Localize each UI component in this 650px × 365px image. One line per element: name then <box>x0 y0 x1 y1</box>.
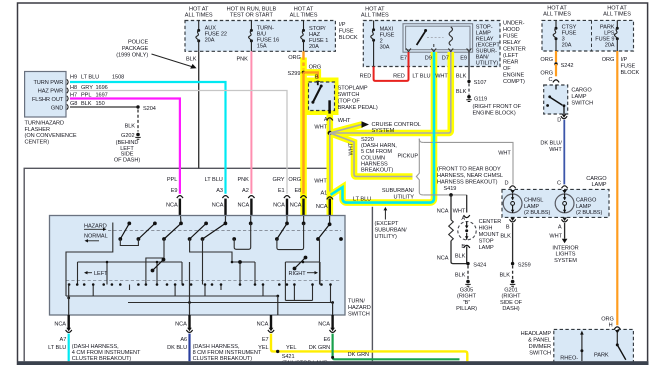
svg-text:RHEO-: RHEO- <box>560 355 578 361</box>
svg-text:LAMP: LAMP <box>571 94 586 100</box>
svg-text:FUSE: FUSE <box>339 29 354 35</box>
svg-text:LIGHTS: LIGHTS <box>556 252 576 258</box>
svg-text:NCA: NCA <box>316 204 328 210</box>
svg-text:(TOP OF: (TOP OF <box>338 99 361 105</box>
svg-text:E9: E9 <box>171 188 178 194</box>
svg-text:A3: A3 <box>216 188 223 194</box>
svg-text:WHT: WHT <box>453 209 466 215</box>
note POLICE PACKAGE (1999 ONLY) with leader arrow <box>116 40 196 69</box>
svg-text:30A: 30A <box>380 45 390 51</box>
switch assembly TURN/HAZARD SWITCH box <box>50 216 346 316</box>
svg-text:PNK: PNK <box>237 177 249 183</box>
label HEADLAMP & PANEL DIMMER SWITCH <box>521 331 552 357</box>
svg-text:RED: RED <box>360 74 372 80</box>
svg-text:20A: 20A <box>562 43 572 49</box>
svg-text:(DASH HARNESS,: (DASH HARNESS, <box>72 344 119 350</box>
header HOT AT ALL TIMES (maxi fuse) <box>361 7 389 19</box>
svg-text:BLK: BLK <box>500 234 511 240</box>
I/P fuse block (right dashed box) <box>542 20 634 51</box>
svg-text:LAMP: LAMP <box>591 182 606 188</box>
svg-text:ENGINE BLOCK): ENGINE BLOCK) <box>473 110 516 116</box>
svg-text:BLK: BLK <box>456 74 467 80</box>
svg-text:20A: 20A <box>605 43 615 49</box>
svg-text:“B”: “B” <box>463 300 470 306</box>
svg-text:I/P: I/P <box>339 22 346 28</box>
svg-text:S204: S204 <box>143 106 156 112</box>
label LEFT with arrow <box>84 271 108 277</box>
svg-text:B: B <box>506 225 510 231</box>
svg-text:ALL TIMES: ALL TIMES <box>361 13 389 19</box>
svg-text:E8: E8 <box>294 188 301 194</box>
svg-text:CENTER: CENTER <box>503 47 526 53</box>
svg-text:4 CM FROM INSTRUMENT: 4 CM FROM INSTRUMENT <box>72 350 141 356</box>
svg-text:RELAY: RELAY <box>503 40 521 46</box>
svg-text:LT BLU: LT BLU <box>81 75 99 81</box>
svg-text:E7: E7 <box>400 56 407 62</box>
svg-text:PNK: PNK <box>237 57 249 63</box>
svg-text:E6: E6 <box>323 337 330 343</box>
svg-text:NCA: NCA <box>212 202 224 208</box>
wire BLK lamp pin B to S424 <box>455 244 470 264</box>
svg-text:8 CM FROM INSTRUMENT: 8 CM FROM INSTRUMENT <box>193 350 262 356</box>
svg-text:SWITCH: SWITCH <box>571 101 593 107</box>
wire BLK from AUX fuse to ground bus <box>186 51 199 168</box>
wire LT BLU relay pin D9 to A1 (suburban/utility) <box>331 52 434 203</box>
svg-text:H: H <box>609 322 613 328</box>
wire WHT brace/squiggle to S419 and to CHMSL lamp feed <box>416 139 513 195</box>
svg-text:20A: 20A <box>309 44 319 50</box>
svg-text:WHT: WHT <box>348 142 354 155</box>
wire U-link A3 throw to PNK pivot <box>234 223 251 249</box>
label CARGO LAMP (title) <box>586 176 607 188</box>
svg-text:H9: H9 <box>70 75 77 81</box>
svg-text:STOPLAMP: STOPLAMP <box>338 86 368 92</box>
svg-text:(ON CONVENIENCE: (ON CONVENIENCE <box>25 133 77 139</box>
ground bus right edge <box>371 207 373 361</box>
svg-text:SYSTEM: SYSTEM <box>554 258 577 264</box>
svg-text:BLK: BLK <box>455 254 466 260</box>
svg-text:PILLAR): PILLAR) <box>456 306 477 312</box>
svg-text:D: D <box>505 180 509 186</box>
pin A3 entry (LT BLU NCA) <box>205 177 229 219</box>
wire ORG park lps fuse to dimmer switch pin H <box>601 51 620 329</box>
lamp assembly box CHMSL LAMP / CARGO LAMP <box>502 189 609 217</box>
svg-text:BLK: BLK <box>186 57 197 63</box>
svg-text:CARGO: CARGO <box>586 176 607 182</box>
underhood fuse-relay center (dashed box) <box>363 21 500 67</box>
svg-text:RED: RED <box>393 74 405 80</box>
node S220 (DASH HARN, 5 CM FROM COLUMN HARNESS BREAKOUT) <box>361 137 397 174</box>
svg-text:COMPT): COMPT) <box>503 79 525 85</box>
note (DASH HARNESS, 8 CM FROM INSTRUMENT CLUSTER BREAKOUT) <box>193 344 262 362</box>
contact dots lower rows <box>67 261 334 304</box>
note (DASH HARNESS, 4 CM FROM INSTRUMENT CLUSTER BREAKOUT) <box>72 344 141 362</box>
svg-text:15A: 15A <box>257 44 267 50</box>
label RIGHT with arrow <box>289 271 319 277</box>
svg-text:FLASHER: FLASHER <box>25 127 50 133</box>
svg-text:C: C <box>557 180 561 186</box>
svg-text:NCA: NCA <box>290 202 302 208</box>
svg-text:RIGHT: RIGHT <box>289 271 307 277</box>
svg-text:DASH): DASH) <box>502 306 519 312</box>
svg-text:FUSE: FUSE <box>621 64 636 70</box>
label (FRONT TO REAR BODY HARNESS, NEAR CHMSL HARNESS BREAKOUT) <box>437 167 503 193</box>
ground G202 (BEHIND LEFT SIDE OF DASH) <box>114 133 141 164</box>
label TURN/HAZARD SWITCH <box>348 299 371 318</box>
svg-text:1508: 1508 <box>112 75 124 81</box>
switch assembly HEADLAMP & PANEL DIMMER SWITCH <box>554 329 634 362</box>
wire YEL E7 to S421 and down to bus <box>258 334 467 362</box>
pin A of stoplamp switch <box>324 117 351 124</box>
pin D9 label <box>425 56 432 62</box>
svg-text:BLK: BLK <box>125 124 136 130</box>
svg-text:LT BLU: LT BLU <box>48 345 66 351</box>
label I/P FUSE BLOCK (right) <box>621 57 640 76</box>
svg-text:BLK: BLK <box>455 273 466 279</box>
svg-text:G119: G119 <box>474 96 487 102</box>
pin D7 label <box>442 56 449 62</box>
pin A / wire WHT lamp assembly to interior lights system <box>549 218 578 264</box>
switch SW1 STOPLAMP SWITCH (TOP OF BRAKE PEDAL) <box>309 82 335 114</box>
wire WHT S419 to center high mount stop lamp <box>453 195 470 222</box>
svg-text:NCA: NCA <box>238 202 250 208</box>
label CENTER HIGH MOUNT STOP LAMP <box>479 219 502 251</box>
fuse STOP/HAZ FUSE 1 20A <box>301 21 329 52</box>
label STOPLAMP SWITCH (TOP OF BRAKE PEDAL) <box>338 86 378 112</box>
svg-text:NCA: NCA <box>175 322 187 328</box>
node S421 (TAIL/STOP LAMP) <box>276 350 328 365</box>
lower row dashed line <box>66 280 341 282</box>
wire WHT to cruise control system <box>330 121 421 134</box>
svg-text:D9: D9 <box>425 56 432 62</box>
svg-text:GRY: GRY <box>273 177 285 183</box>
header HOT AT ALL TIMES (stop/haz fuse) <box>290 7 318 19</box>
svg-text:ORG: ORG <box>288 55 301 61</box>
ground G119 (RIGHT FRONT OF ENGINE BLOCK) <box>466 95 521 116</box>
wire DK BLU A6 to cluster <box>167 334 189 362</box>
svg-text:SWITCH: SWITCH <box>338 92 360 98</box>
wire thin S419 horizontal run <box>423 194 467 196</box>
svg-text:S421: S421 <box>282 354 295 360</box>
svg-text:POLICE: POLICE <box>128 40 149 46</box>
svg-text:S259: S259 <box>518 262 531 268</box>
pin G8 / wire BLK 150 flasher to S204 <box>70 101 138 107</box>
wire WHT junction to relay pin D7 <box>330 52 451 133</box>
svg-text:MOUNT: MOUNT <box>479 232 500 238</box>
svg-text:A7: A7 <box>60 337 67 343</box>
svg-text:ALL TIMES: ALL TIMES <box>290 13 318 19</box>
internal wiring web of turn/hazard switch <box>66 223 333 303</box>
header HOT AT ALL TIMES (ctsy fuse) <box>543 6 571 18</box>
pin H7 / wire PPL 1697 flasher to E9 <box>70 93 180 194</box>
svg-text:DK BLU/: DK BLU/ <box>540 141 562 147</box>
svg-text:NCA: NCA <box>166 202 178 208</box>
svg-text:NCA: NCA <box>437 256 449 262</box>
label SUBURBAN/UTILITY <box>382 188 415 200</box>
fuse MAXI FUSE 2 30A <box>371 21 395 67</box>
label I/P FUSE BLOCK <box>339 22 358 41</box>
svg-text:HARNESS BREAKOUT): HARNESS BREAKOUT) <box>437 180 498 186</box>
node S419 <box>449 193 453 197</box>
note (EXCEPT SUBURBAN/UTILITY) with up arrow <box>375 207 408 240</box>
svg-text:(RIGHT FRONT OF: (RIGHT FRONT OF <box>473 104 522 110</box>
pin E8 entry (ORG NCA) <box>288 177 306 219</box>
svg-text:HARNESS: HARNESS <box>361 161 388 167</box>
svg-text:(RIGHT: (RIGHT <box>502 294 522 300</box>
pin C of lamp assembly <box>557 180 568 193</box>
svg-text:E7: E7 <box>262 337 269 343</box>
label HAZARD / NORMAL mode arrows <box>84 223 108 242</box>
svg-text:CENTER: CENTER <box>479 219 502 225</box>
pin H8 / wire GRY 1696 flasher to E1 <box>70 85 287 194</box>
label TURN/HAZARD FLASHER (ON CONVENIENCE CENTER) <box>25 121 77 146</box>
svg-text:PPL: PPL <box>167 177 177 183</box>
svg-text:NCA: NCA <box>318 322 330 328</box>
lamp CENTER HIGH MOUNT STOP LAMP <box>458 222 476 240</box>
svg-text:INTERIOR: INTERIOR <box>552 245 578 251</box>
header HOT AT ALL TIMES (aux fuse) <box>185 7 213 19</box>
wire LT BLU A7 to cluster <box>48 334 69 362</box>
entry stubs to hazard row pivots <box>181 216 330 224</box>
switch SW2 CARGO LAMP SWITCH <box>544 85 568 114</box>
svg-text:BLOCK: BLOCK <box>339 35 358 41</box>
svg-text:SUBURBAN/: SUBURBAN/ <box>382 188 415 194</box>
svg-text:ENGINE: ENGINE <box>503 73 524 79</box>
svg-text:NCA: NCA <box>437 209 449 215</box>
svg-text:ORG: ORG <box>309 64 322 70</box>
svg-text:G8: G8 <box>70 101 77 107</box>
wire BLK dashed S424 to G305 <box>455 266 468 280</box>
node S107 <box>467 80 486 86</box>
svg-text:DK GRN: DK GRN <box>309 345 330 351</box>
svg-text:STOP: STOP <box>479 239 494 245</box>
svg-text:SWITCH: SWITCH <box>529 350 551 356</box>
svg-text:UTILITY): UTILITY) <box>375 234 397 240</box>
svg-text:BLK: BLK <box>81 101 92 107</box>
svg-text:REAR: REAR <box>503 60 518 66</box>
fuse PARK LPS FUSE 9 20A <box>595 20 619 51</box>
svg-text:BLOCK: BLOCK <box>621 70 640 76</box>
header HOT IN RUN, BULB TEST OR START <box>227 7 277 19</box>
svg-text:GND: GND <box>51 105 63 111</box>
svg-text:HOOD: HOOD <box>503 27 520 33</box>
pin D of lamp assembly <box>505 180 516 193</box>
svg-text:CHMSL: CHMSL <box>524 198 543 204</box>
svg-text:D: D <box>557 118 561 124</box>
svg-text:(EXCEPT: (EXCEPT <box>375 221 400 227</box>
svg-text:D7: D7 <box>442 56 449 62</box>
svg-text:20A: 20A <box>205 38 215 44</box>
ground bus outline (left/top of turn-hazard assembly) <box>24 168 330 361</box>
svg-text:(DASH HARN,: (DASH HARN, <box>361 143 397 149</box>
svg-text:ORG: ORG <box>540 57 553 63</box>
pin E6 exit (NCA) <box>318 315 335 343</box>
wire PNK from TURN-B/U fuse to A2 <box>237 51 252 194</box>
label STOP-LAMP RELAY (EXCEPT SUBURBAN/UTILITY) <box>476 25 501 67</box>
svg-text:S242: S242 <box>561 63 574 69</box>
hazard row dashed line <box>108 230 341 232</box>
svg-text:LAMP: LAMP <box>524 204 539 210</box>
hazard switch contacts row (levers and poles) <box>119 222 342 240</box>
svg-text:SWITCH: SWITCH <box>348 312 370 318</box>
svg-text:(FRONT TO REAR BODY: (FRONT TO REAR BODY <box>437 167 501 173</box>
svg-text:G201: G201 <box>504 288 517 294</box>
flasher module TURN/HAZARD FLASHER <box>25 72 69 118</box>
wire U-link GRY throw to ORG pivot <box>277 223 304 249</box>
pin E7 exit (NCA) <box>257 315 274 343</box>
pin E9 entry (PPL NCA) <box>166 177 183 219</box>
svg-text:WHT: WHT <box>314 124 327 130</box>
svg-text:TURN PWR: TURN PWR <box>33 80 63 86</box>
svg-text:COLUMN: COLUMN <box>361 155 385 161</box>
svg-text:OF: OF <box>503 66 511 72</box>
svg-text:WHT: WHT <box>338 118 351 124</box>
svg-text:BLK: BLK <box>499 273 510 279</box>
svg-text:NCA: NCA <box>273 202 285 208</box>
svg-text:(2 BULBS): (2 BULBS) <box>576 210 602 216</box>
svg-text:WHT: WHT <box>314 179 327 185</box>
svg-text:DK BLU: DK BLU <box>167 345 187 351</box>
svg-text:HEADLAMP: HEADLAMP <box>521 331 552 337</box>
svg-text:YEL: YEL <box>286 345 296 351</box>
svg-text:(LEFT: (LEFT <box>503 53 519 59</box>
svg-text:PARK: PARK <box>594 352 609 358</box>
svg-text:(2 BULBS): (2 BULBS) <box>524 210 550 216</box>
svg-text:SUBURBAN/: SUBURBAN/ <box>375 228 408 234</box>
node S204 <box>136 105 156 112</box>
svg-text:G305: G305 <box>460 288 473 294</box>
wire ORG S299 to stoplamp switch pin B <box>304 72 321 83</box>
svg-text:150: 150 <box>96 101 105 107</box>
svg-text:5 CM FROM: 5 CM FROM <box>361 149 392 155</box>
node S242 <box>554 62 573 69</box>
label CARGO LAMP SWITCH <box>571 88 593 107</box>
pin E7 label <box>400 56 407 62</box>
label PICKUP <box>398 154 419 160</box>
node S259 <box>511 262 531 268</box>
svg-text:CARGO: CARGO <box>571 88 592 94</box>
svg-text:CENTER): CENTER) <box>25 139 50 145</box>
fuse TURN-B/U FUSE 16 15A <box>249 21 280 52</box>
svg-text:(RIGHT: (RIGHT <box>457 294 477 300</box>
svg-text:C: C <box>549 77 553 83</box>
svg-text:PACKAGE: PACKAGE <box>122 46 149 52</box>
ground G305 (RIGHT B PILLAR) <box>456 280 477 312</box>
svg-text:CARGO: CARGO <box>576 198 597 204</box>
svg-text:NCA: NCA <box>257 322 269 328</box>
svg-text:E1: E1 <box>278 188 285 194</box>
svg-text:FUSE: FUSE <box>503 34 518 40</box>
mid-row switch levers <box>151 256 307 272</box>
svg-text:G202: G202 <box>121 133 134 139</box>
svg-text:A: A <box>558 225 562 231</box>
wire ORG S242 to cargo lamp switch pin C <box>540 64 559 83</box>
svg-text:I/P: I/P <box>621 57 628 63</box>
svg-text:FLSHR OUT: FLSHR OUT <box>32 97 64 103</box>
node S299 <box>288 71 306 77</box>
svg-text:ALL TIMES: ALL TIMES <box>603 12 631 18</box>
pin H9 / wire LT BLU 1508 flasher to A3 <box>70 75 226 194</box>
svg-text:YEL: YEL <box>258 345 268 351</box>
svg-text:S220: S220 <box>361 137 374 143</box>
svg-text:S419: S419 <box>444 186 457 192</box>
svg-text:LAMP: LAMP <box>479 245 494 251</box>
svg-text:WHT: WHT <box>498 151 511 157</box>
svg-text:& PANEL: & PANEL <box>528 337 551 343</box>
node S424 <box>466 262 486 268</box>
svg-text:ORG: ORG <box>602 57 615 63</box>
wire BLK from relay pin E9 to S107 <box>456 52 469 80</box>
label UNDERHOOD FUSE RELAY CENTER (LEFT REAR OF ENGINE COMPT) <box>503 21 526 86</box>
svg-text:(DASH HARNESS,: (DASH HARNESS, <box>193 344 240 350</box>
svg-text:A: A <box>324 117 328 123</box>
svg-text:HIGH: HIGH <box>479 226 493 232</box>
svg-text:PICKUP: PICKUP <box>398 154 419 160</box>
wire WHT stoplamp switch to junction <box>314 119 329 133</box>
pin A7 exit (NCA) <box>54 315 71 343</box>
svg-text:ORG: ORG <box>288 177 301 183</box>
svg-text:SIDE OF: SIDE OF <box>500 300 523 306</box>
wire BLK dashed S259 to G201 <box>499 266 512 280</box>
svg-text:LT BLU: LT BLU <box>205 177 223 183</box>
wire BLK dashed S107 to G119 <box>456 83 469 95</box>
exit wires inside box to bottom edge <box>69 262 333 315</box>
fuse AUX FUSE 22 20A <box>196 21 227 52</box>
svg-text:BRAKE PEDAL): BRAKE PEDAL) <box>338 105 378 111</box>
svg-text:CRUISE CONTROL: CRUISE CONTROL <box>372 122 421 128</box>
svg-text:TEST OR START: TEST OR START <box>230 13 273 19</box>
svg-text:HARNESS, NEAR CHMSL: HARNESS, NEAR CHMSL <box>437 173 503 179</box>
svg-text:TURN/HAZARD: TURN/HAZARD <box>25 121 65 127</box>
node junction at stoplamp output <box>328 131 332 135</box>
wire DK GRN E6 to right <box>309 334 460 360</box>
wire ORG S299 down to E8 <box>302 72 304 193</box>
wire ORG stop/haz fuse to S299 (dashed section) <box>288 51 321 70</box>
svg-text:S424: S424 <box>473 262 486 268</box>
pin E1 entry (GRY NCA) <box>273 177 291 219</box>
wire DK BLU/WHT cargo switch to lamp assembly pin C <box>540 120 564 185</box>
svg-text:DK GRN: DK GRN <box>348 352 369 358</box>
wire ORG CTSY fuse to S242 <box>540 51 556 63</box>
svg-text:HAZ PWR: HAZ PWR <box>38 89 63 95</box>
svg-text:UNDER-: UNDER- <box>503 21 525 27</box>
relay STOP-LAMP RELAY (box with contact and coil) <box>403 24 473 53</box>
svg-text:NCA: NCA <box>54 322 66 328</box>
svg-text:LT BLU: LT BLU <box>353 197 371 203</box>
svg-text:ORG: ORG <box>540 71 553 77</box>
pin B / wire BLK lamp assembly to S259 <box>500 218 515 264</box>
svg-text:ALL TIMES: ALL TIMES <box>185 13 213 19</box>
svg-text:HAZARD: HAZARD <box>348 305 371 311</box>
svg-text:A2: A2 <box>242 188 249 194</box>
svg-text:NORMAL: NORMAL <box>84 233 108 239</box>
svg-text:B: B <box>315 74 319 80</box>
svg-text:A1: A1 <box>320 190 327 196</box>
svg-text:DIMMER: DIMMER <box>529 344 551 350</box>
svg-text:ALL TIMES: ALL TIMES <box>543 12 571 18</box>
svg-text:E9: E9 <box>460 56 467 62</box>
pin A6 exit (NCA) <box>175 315 192 343</box>
fuse CTSY FUSE 3 20A <box>553 20 576 51</box>
header HOT AT ALL TIMES (park lps fuse) <box>603 6 631 18</box>
svg-text:WHT: WHT <box>549 147 562 153</box>
wire NCA resistor branch S419 to S424 <box>437 195 467 264</box>
pin E9 label <box>460 56 467 62</box>
pin A1 entry (WHT NCA) <box>314 133 333 219</box>
wire RED from MAXI fuse to relay pin E7 <box>360 52 409 81</box>
wire BLK dashed S204 to G202 <box>125 110 138 132</box>
svg-text:S107: S107 <box>474 80 487 86</box>
